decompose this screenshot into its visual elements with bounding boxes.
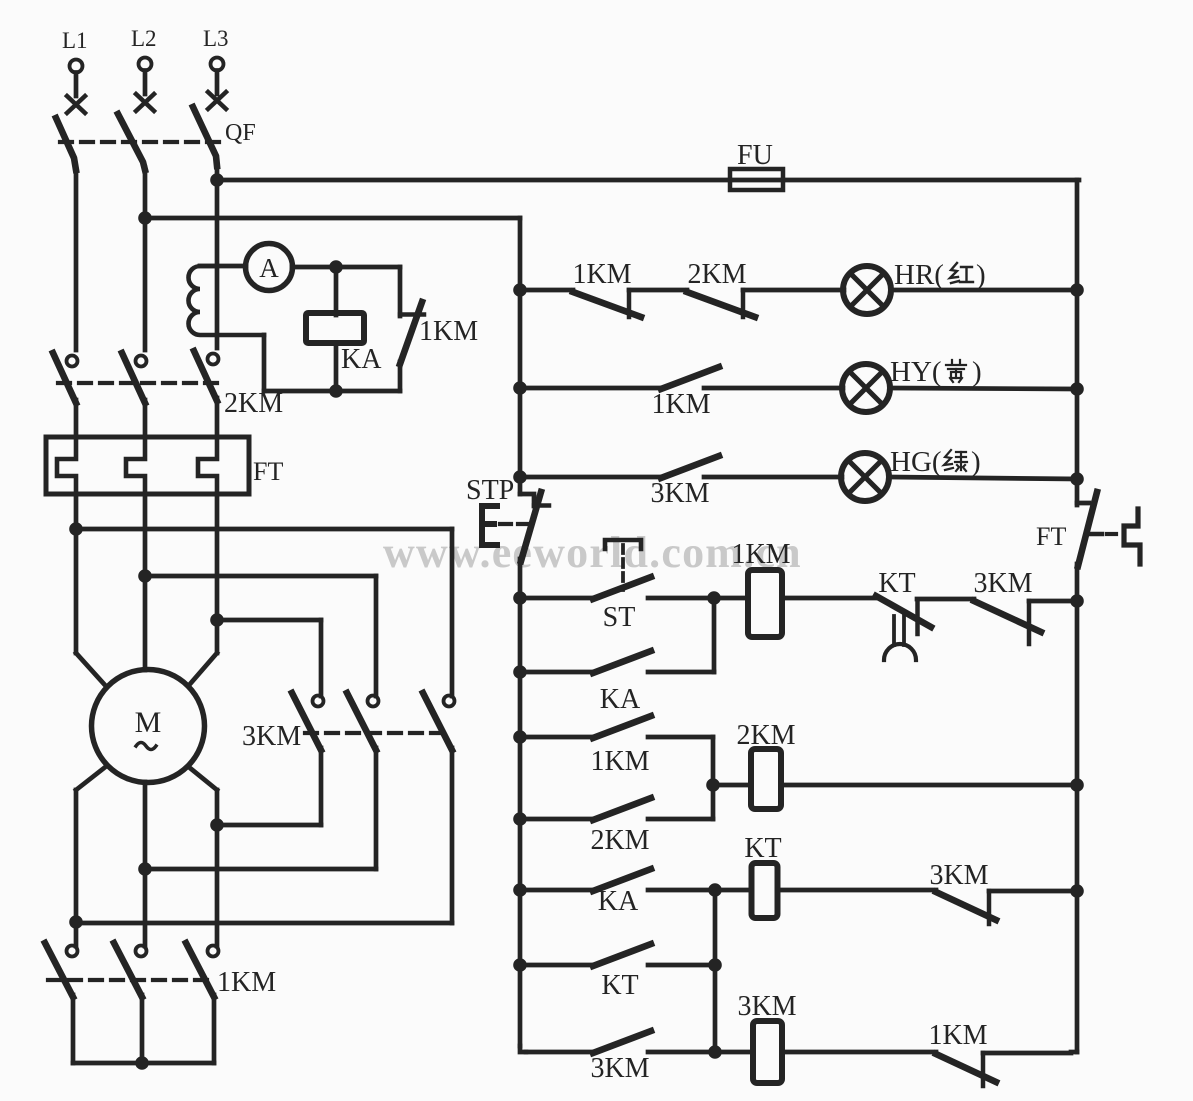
- wire bottom of meter branch: [264, 389, 400, 394]
- svg-text:2KM: 2KM: [736, 720, 795, 751]
- svg-text:2KM: 2KM: [590, 825, 649, 856]
- contactor 1KM pole1: [45, 943, 78, 1063]
- coil 3KM: [737, 991, 796, 1083]
- lamp HY: [842, 364, 890, 412]
- label 1KM main: [217, 967, 276, 998]
- node ammeter branch: [329, 260, 343, 274]
- wire 3KM row left: [526, 1050, 593, 1055]
- node star point: [135, 1056, 149, 1070]
- svg-text:M: M: [135, 706, 162, 739]
- wire 3KM coil to 1KM contact: [782, 1050, 936, 1055]
- top bus wire FU to right bus: [783, 178, 1079, 183]
- lamp HR: [843, 266, 891, 314]
- terminal L1: [62, 28, 88, 96]
- node left bus y965: [513, 958, 527, 972]
- node right bus y785: [1070, 778, 1084, 792]
- svg-text:KT: KT: [601, 970, 638, 1001]
- left bus upper: [518, 290, 523, 494]
- wire 2KM row right: [648, 817, 713, 822]
- svg-text:FT: FT: [253, 457, 283, 486]
- contactor 1KM pole3: [186, 943, 219, 1063]
- node right bus HG: [1070, 472, 1084, 486]
- left control bus corner: [518, 218, 523, 290]
- contact KA NO (row5): [593, 651, 651, 715]
- top bus wire to FU: [217, 178, 730, 183]
- wire 1KM row right: [648, 735, 713, 740]
- wire HR lamp to bus: [891, 288, 1077, 293]
- node KT coil row: [708, 883, 722, 897]
- svg-text:ST: ST: [603, 602, 636, 633]
- wire 3KM row right: [648, 1050, 715, 1055]
- coil 1KM: [731, 539, 790, 637]
- wire pole2 QF to 2KM: [143, 168, 148, 350]
- wire motor to pole1 bottom: [76, 768, 104, 946]
- FT heater element pole2: [126, 437, 145, 494]
- node right bus HY: [1070, 382, 1084, 396]
- fuse FU: [730, 140, 783, 190]
- svg-text:3KM: 3KM: [242, 721, 301, 752]
- terminal L2: [131, 26, 157, 94]
- wire rows6-8 vertical: [711, 737, 716, 819]
- circuit breaker QF pole 1 blade: [56, 118, 76, 170]
- svg-text:3KM: 3KM: [929, 860, 988, 891]
- svg-text:FU: FU: [737, 140, 773, 171]
- wire node down to KA coil: [334, 267, 339, 315]
- wire 3KM pole C return: [76, 921, 452, 926]
- contact 1KM NC (row10): [928, 1020, 996, 1086]
- wire HG row left: [520, 475, 661, 480]
- node 1KM coil row: [707, 591, 721, 605]
- wire KA row left: [520, 670, 593, 675]
- node right bus HR: [1070, 283, 1084, 297]
- coil KT: [744, 833, 781, 918]
- wire 3KM row8 to bus: [989, 889, 1077, 894]
- contact 3KM NC (row4): [973, 568, 1041, 644]
- relay coil KA: [306, 313, 382, 375]
- node left bus y737: [513, 730, 527, 744]
- node pole3 tap: [210, 613, 224, 627]
- svg-text:1KM: 1KM: [572, 259, 631, 290]
- svg-text:1KM: 1KM: [731, 539, 790, 570]
- svg-text:): ): [976, 259, 986, 291]
- contactor 2KM link: [58, 381, 222, 385]
- contactor 3KM pole B: [347, 693, 379, 869]
- circuit breaker QF pole 2 blade: [118, 114, 145, 170]
- svg-text:1KM: 1KM: [217, 967, 276, 998]
- contactor 1KM link: [48, 978, 214, 982]
- wire 1KM coil to KT contact: [782, 596, 876, 601]
- label 2KM main: [224, 388, 283, 419]
- node pole1 tap: [69, 522, 83, 536]
- svg-text:A: A: [259, 253, 279, 283]
- contactor 3KM pole C: [423, 693, 455, 923]
- svg-text:KA: KA: [598, 886, 639, 917]
- contactor 2KM pole3: [194, 351, 219, 437]
- svg-text:HR(: HR(: [894, 259, 944, 291]
- contact 3KM NO (row10): [590, 1031, 651, 1084]
- svg-text:L1: L1: [62, 28, 88, 53]
- svg-text:3KM: 3KM: [973, 568, 1032, 599]
- wire 1KM row left: [520, 735, 593, 740]
- wire HR row to lamp: [743, 288, 844, 293]
- svg-text:3KM: 3KM: [590, 1053, 649, 1084]
- wire motor to pole3 bottom: [190, 768, 217, 946]
- wire pole3 FT to motor: [190, 494, 217, 684]
- disconnect X mark L2: [136, 94, 154, 111]
- wire 3KM pole A return: [217, 823, 321, 828]
- node pole1 bottom tap: [69, 915, 83, 929]
- wire node to 2KM coil: [713, 783, 751, 788]
- wire 3KM pole B return: [145, 867, 376, 872]
- wire node to 1KM coil: [714, 596, 748, 601]
- svg-text:2KM: 2KM: [687, 259, 746, 290]
- wire ST row left: [520, 596, 593, 601]
- contact 1KM NO (row6): [590, 716, 651, 777]
- svg-text:QF: QF: [225, 120, 256, 146]
- wire node to 3KM coil: [715, 1050, 753, 1055]
- wire HY row to lamp: [704, 386, 843, 391]
- svg-text:3KM: 3KM: [650, 478, 709, 509]
- svg-text:L3: L3: [203, 26, 229, 51]
- wire KT row right: [648, 963, 715, 968]
- time contact KT delayed NC: [876, 568, 931, 660]
- circuit breaker QF mechanical link: [60, 140, 224, 144]
- node left bus HY: [513, 381, 527, 395]
- label HR: [894, 259, 986, 291]
- label 3KM main: [242, 721, 301, 752]
- wire KT row left: [520, 963, 593, 968]
- node meter branch bottom: [329, 384, 343, 398]
- wire 2KM row left: [520, 817, 593, 822]
- node left bus y598: [513, 591, 527, 605]
- terminal L3: [203, 26, 229, 94]
- svg-text:): ): [972, 356, 982, 388]
- node left bus y819: [513, 812, 527, 826]
- node left bus HR: [513, 283, 527, 297]
- contact 2KM NO (row7): [590, 798, 651, 856]
- node pole2 second-bus junction: [138, 211, 152, 225]
- circuit breaker QF pole 3 blade: [193, 107, 217, 166]
- svg-text:1KM: 1KM: [928, 1020, 987, 1051]
- wire HR row left: [520, 288, 573, 293]
- wire HY lamp to bus: [890, 388, 1077, 389]
- svg-text:KT: KT: [744, 833, 781, 864]
- wire rows8-10 vertical: [713, 890, 718, 1052]
- contact 2KM NC (HR row): [687, 259, 755, 317]
- lamp HG: [841, 453, 889, 501]
- wire pole3 tap to 3KM pole A: [217, 620, 321, 696]
- wire KA row up: [712, 598, 717, 672]
- label HY: [890, 356, 982, 388]
- wire pole1 tap to 3KM pole C: [76, 529, 452, 696]
- node right bus y891: [1070, 884, 1084, 898]
- wire 2KM coil to bus: [781, 783, 1077, 788]
- thermal contact FT right: [1036, 492, 1140, 601]
- contact 1KM vertical in meter branch: [400, 267, 478, 391]
- label QF: [225, 120, 256, 146]
- node pole3 top-bus junction: [210, 173, 224, 187]
- contact 3KM NC (row8): [929, 860, 996, 924]
- wire motor to pole2 bottom: [143, 782, 148, 946]
- disconnect X mark L1: [67, 96, 85, 113]
- label HG: [890, 446, 981, 478]
- svg-text:1KM: 1KM: [651, 389, 710, 420]
- svg-text:L2: L2: [131, 26, 157, 51]
- pushbutton ST: [593, 540, 651, 633]
- node pole2 bottom tap: [138, 862, 152, 876]
- left bus lower: [520, 598, 526, 1052]
- svg-text:1KM: 1KM: [590, 746, 649, 777]
- contact 1KM NO (HY row): [651, 367, 719, 420]
- wire pole3 QF to 2KM: [215, 164, 220, 348]
- contact 1KM NC (HR row): [572, 259, 641, 317]
- wire pole1 QF to 2KM: [74, 168, 79, 350]
- wire HG row to lamp: [704, 475, 842, 480]
- svg-text:3KM: 3KM: [737, 991, 796, 1022]
- FT heater element pole1: [57, 437, 76, 494]
- wire ammeter to branch node: [292, 265, 400, 270]
- svg-text:STP: STP: [466, 475, 514, 506]
- wire HR row mid: [629, 288, 687, 293]
- motor M: [92, 670, 205, 783]
- svg-text:KA: KA: [600, 684, 641, 715]
- wire pole1 FT to motor: [76, 494, 104, 684]
- contact KT NO (row9): [593, 944, 651, 1001]
- FT heater element pole3: [198, 437, 217, 494]
- contact 3KM NO (HG row): [650, 456, 719, 509]
- node KT row: [708, 958, 722, 972]
- svg-text:2KM: 2KM: [224, 388, 283, 419]
- coil 2KM: [736, 720, 795, 809]
- contactor 3KM pole A: [292, 693, 324, 825]
- node right bus y601: [1070, 594, 1084, 608]
- right bus upper: [1075, 180, 1080, 505]
- node left bus HG: [513, 470, 527, 484]
- disconnect X mark L3: [208, 92, 226, 109]
- svg-text:HY(: HY(: [890, 356, 942, 388]
- svg-text:): ): [971, 446, 981, 478]
- svg-text:HG(: HG(: [890, 446, 942, 478]
- wire 1KM row10 to bus: [983, 1051, 1071, 1056]
- node pole2 tap: [138, 569, 152, 583]
- pushbutton STP: [466, 475, 549, 598]
- thermal relay FT box: [46, 437, 283, 494]
- right bus lower: [1071, 600, 1077, 1052]
- node left bus y890: [513, 883, 527, 897]
- wire CT bottom down: [262, 335, 267, 391]
- second bus wire: [145, 216, 520, 221]
- contactor 3KM link: [305, 731, 452, 735]
- svg-text:1KM: 1KM: [419, 316, 478, 347]
- svg-text:KT: KT: [878, 568, 915, 599]
- node left bus y672: [513, 665, 527, 679]
- wire HG lamp to bus: [889, 477, 1077, 479]
- wire pole2 tap to 3KM pole B: [145, 576, 376, 696]
- wire 3KM contact to bus: [1029, 599, 1077, 604]
- svg-text:FT: FT: [1036, 522, 1066, 551]
- node 3KM coil row: [708, 1045, 722, 1059]
- ammeter A: [246, 244, 293, 291]
- contactor 2KM pole2: [122, 353, 147, 437]
- svg-text:KA: KA: [341, 344, 382, 375]
- contact KA NO (row8): [593, 869, 651, 917]
- wire KT to 3KM contact: [917, 597, 974, 602]
- wire CT top to ammeter: [200, 264, 246, 269]
- current transformer on pole3: [188, 266, 264, 335]
- wire pole2 FT to motor: [143, 494, 148, 670]
- contactor 1KM pole2: [114, 943, 147, 1063]
- contactor 2KM pole1: [53, 353, 78, 437]
- wire KA2 row left: [520, 888, 593, 893]
- wire KA2 to node: [648, 888, 715, 893]
- wire KA coil to bottom node: [334, 343, 339, 391]
- wire ST to node: [648, 596, 714, 601]
- star point wire: [73, 1061, 214, 1066]
- node 2KM coil row: [706, 778, 720, 792]
- wire KA row right: [648, 670, 714, 675]
- wire KT coil to 3KM contact: [777, 888, 936, 893]
- node pole3 bottom tap: [210, 818, 224, 832]
- wire node to KT coil: [715, 888, 752, 893]
- wire HY row left: [520, 386, 661, 391]
